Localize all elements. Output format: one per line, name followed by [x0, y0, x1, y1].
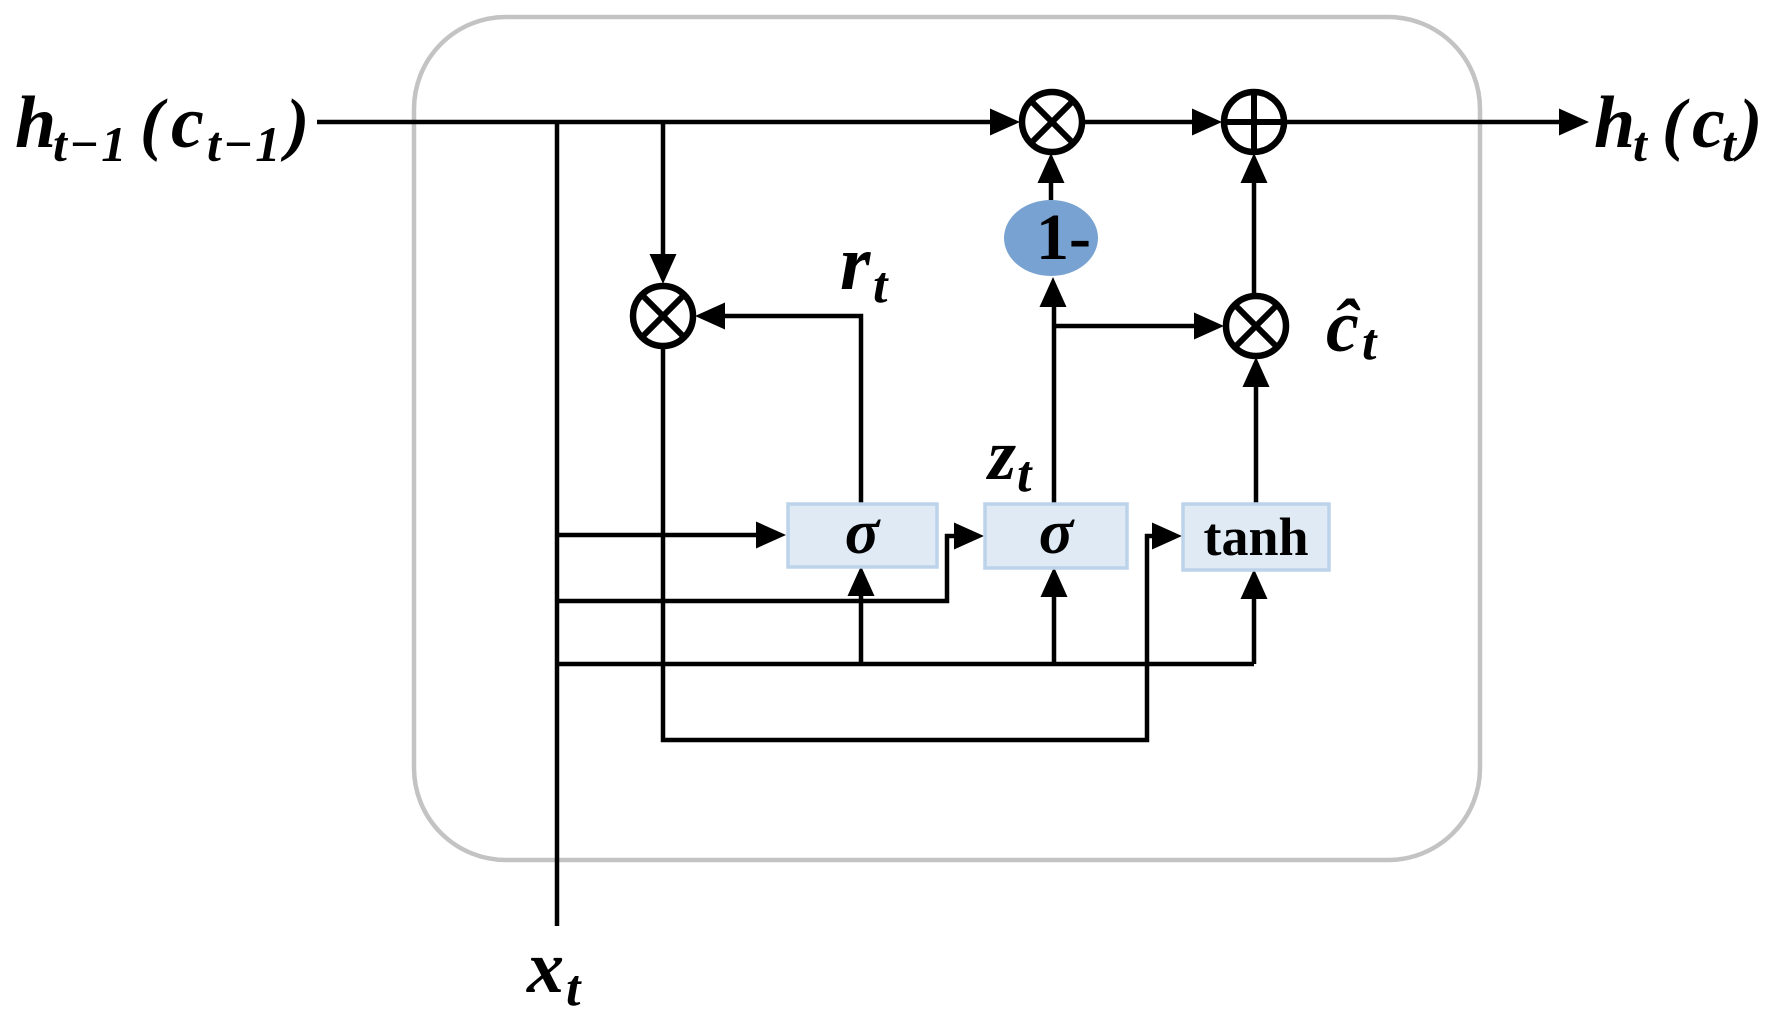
svg-text:(: ( — [140, 86, 168, 163]
svg-text:x: x — [526, 927, 564, 1009]
svg-text:σ: σ — [845, 496, 881, 567]
svg-text:t: t — [566, 960, 582, 1014]
svg-text:r: r — [840, 219, 871, 306]
svg-text:t−1: t−1 — [53, 116, 128, 172]
svg-text:z: z — [985, 415, 1016, 495]
svg-text:t−1: t−1 — [207, 116, 282, 172]
svg-text:h: h — [15, 82, 56, 164]
svg-text:t: t — [1722, 116, 1738, 172]
svg-text:): ) — [280, 86, 309, 163]
svg-text:t: t — [1362, 314, 1378, 371]
svg-text:c: c — [1692, 82, 1725, 164]
svg-text:t: t — [1017, 446, 1033, 503]
svg-text:c: c — [171, 82, 204, 164]
svg-text:σ: σ — [1039, 496, 1075, 567]
svg-text:tanh: tanh — [1203, 507, 1308, 567]
svg-text:1-: 1- — [1036, 201, 1091, 274]
svg-text:ĉ: ĉ — [1326, 286, 1361, 368]
svg-text:(: ( — [1662, 86, 1690, 163]
svg-text:t: t — [873, 257, 889, 314]
svg-text:t: t — [1633, 116, 1649, 172]
svg-text:): ) — [1733, 86, 1762, 163]
svg-text:h: h — [1594, 82, 1635, 164]
